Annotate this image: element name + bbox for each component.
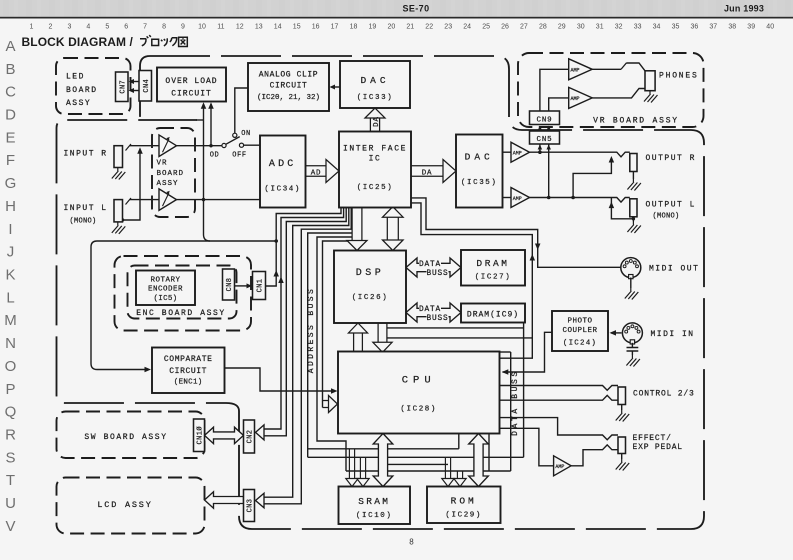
junction dot CN5-L <box>547 196 551 200</box>
wire CPU bottom to y471 line <box>488 434 490 471</box>
svg-text:8: 8 <box>409 538 414 547</box>
svg-text:ROTARY: ROTARY <box>150 277 180 285</box>
svg-text:AD: AD <box>311 170 322 178</box>
svg-text:BUSS: BUSS <box>427 270 449 278</box>
connector CN9 <box>530 111 560 125</box>
wire CPU bottom to y448 line <box>458 434 460 449</box>
wire ON contact to analog clip circuit <box>235 88 248 133</box>
thin arrow into ROM b <box>454 471 466 487</box>
wire input R to amp <box>130 145 159 147</box>
svg-text:M: M <box>4 312 17 329</box>
svg-text:26: 26 <box>501 24 509 31</box>
DRAM IC27 box <box>461 250 525 286</box>
svg-text:22: 22 <box>425 24 433 31</box>
phones jack switch contact <box>621 63 627 70</box>
input R jack switch contact <box>126 144 132 151</box>
wire CPU to effect amp <box>500 428 554 466</box>
fat arrow DA IC25 to DAC35 <box>411 160 456 183</box>
bus line y457.3 <box>308 456 524 458</box>
svg-text:C: C <box>5 84 16 101</box>
LED board assy box <box>56 58 131 114</box>
svg-text:AMP: AMP <box>513 151 522 157</box>
CPU IC28 box <box>338 352 500 434</box>
svg-text:CIRCUIT: CIRCUIT <box>169 367 207 376</box>
svg-text:ADDRESS BUSS: ADDRESS BUSS <box>307 287 316 373</box>
scanned page top edge band <box>0 0 793 17</box>
SW board assy box <box>57 412 205 459</box>
svg-text:O: O <box>5 358 17 375</box>
svg-text:N: N <box>5 335 16 352</box>
wire CN4 to CN7 upper <box>132 81 140 83</box>
wire comparate feed <box>91 241 276 370</box>
wire amp R out to OD switch <box>177 145 222 147</box>
bus line y448.8 <box>308 448 459 450</box>
svg-text:38: 38 <box>728 24 736 31</box>
svg-text:(IC34): (IC34) <box>264 186 301 194</box>
DSP IC26 box <box>334 251 406 324</box>
mono link L jack to R wire <box>123 150 141 220</box>
fat arrow CN10-CN2 <box>205 427 244 443</box>
svg-text:OD: OD <box>210 152 220 160</box>
wire overload tap R <box>210 104 212 146</box>
svg-text:EFFECT/: EFFECT/ <box>633 434 672 443</box>
thin arrow into SRAM a <box>346 449 358 487</box>
over load circuit box <box>157 68 226 102</box>
svg-text:6: 6 <box>124 24 128 31</box>
svg-text:18: 18 <box>350 24 358 31</box>
DAC IC33 box <box>340 61 410 108</box>
svg-text:LCD ASSY: LCD ASSY <box>97 500 152 510</box>
svg-text:15: 15 <box>293 24 301 31</box>
VR board assy box right <box>518 53 704 127</box>
bus line y471 <box>346 470 511 472</box>
MIDI IN ground lead with capacitor <box>631 343 633 347</box>
svg-text:28: 28 <box>539 24 547 31</box>
svg-text:DRAM: DRAM <box>476 258 509 269</box>
svg-text:ROM: ROM <box>451 496 477 507</box>
svg-text:3: 3 <box>67 24 71 31</box>
wire photo coupler to CPU <box>503 332 553 372</box>
svg-text:BUSS: BUSS <box>427 315 449 323</box>
svg-text:B: B <box>5 61 15 78</box>
svg-text:25: 25 <box>482 24 490 31</box>
svg-text:ENC BOARD ASSY: ENC BOARD ASSY <box>136 309 226 318</box>
wire CPU top right to data buss <box>500 351 511 353</box>
switch blade <box>226 137 240 145</box>
ground output R <box>627 179 641 191</box>
connector CN4 <box>139 71 152 102</box>
wire CPU control line 1 <box>500 386 618 391</box>
svg-text:CN4: CN4 <box>143 79 151 93</box>
svg-text:ANALOG CLIP: ANALOG CLIP <box>259 71 318 80</box>
junction dot sleeve link <box>632 217 635 220</box>
svg-text:E: E <box>5 129 15 146</box>
svg-text:INPUT L: INPUT L <box>64 204 108 213</box>
wire CN9 up to phones amp R <box>540 69 569 111</box>
svg-text:DSP: DSP <box>356 268 385 279</box>
svg-text:IC: IC <box>369 155 382 164</box>
comparate circuit box <box>152 348 225 394</box>
svg-text:V: V <box>5 518 15 535</box>
wire amp R to output R jack <box>530 152 630 157</box>
svg-text:31: 31 <box>596 24 604 31</box>
input R jack <box>114 146 123 168</box>
connector CN3 <box>244 490 255 522</box>
svg-text:DAC: DAC <box>360 75 389 86</box>
connector CN7 <box>116 72 129 102</box>
VR amp input R <box>159 135 177 157</box>
wire input L to amp <box>130 199 159 201</box>
ROM IC29 box <box>427 487 501 524</box>
svg-text:(IC28): (IC28) <box>400 406 437 414</box>
svg-text:LED: LED <box>66 73 85 82</box>
wire CN5 down to R wire <box>539 144 541 152</box>
svg-text:11: 11 <box>217 24 224 31</box>
svg-text:ASSY: ASSY <box>157 180 179 188</box>
svg-text:SE-70: SE-70 <box>402 4 429 14</box>
photo coupler IC24 box <box>552 311 608 351</box>
wire IC25 to CN1 <box>266 208 341 287</box>
svg-text:27: 27 <box>520 24 528 31</box>
svg-text:14: 14 <box>274 24 282 31</box>
wire CPU control line 2 <box>500 395 618 400</box>
svg-text:29: 29 <box>558 24 566 31</box>
svg-text:MIDI IN: MIDI IN <box>651 330 695 339</box>
svg-text:34: 34 <box>653 24 661 31</box>
fat arrow data buss DSP-DRAM9 <box>406 303 461 322</box>
fat arrow CPU-ROM <box>469 434 489 487</box>
wire DAC IC33 to analog clip <box>333 86 341 88</box>
fat arrow IC25-DSP bidirectional <box>383 207 404 251</box>
svg-text:CN7: CN7 <box>119 80 127 94</box>
VR board assy box left <box>152 128 195 217</box>
main board outline left edge near CN4 <box>140 56 150 120</box>
svg-text:MIDI OUT: MIDI OUT <box>649 265 699 274</box>
ENC board inner box <box>128 266 237 319</box>
data buss vertical left <box>510 352 512 471</box>
input L jack <box>114 200 123 222</box>
svg-text:COMPARATE: COMPARATE <box>164 355 213 364</box>
svg-text:9: 9 <box>181 24 185 31</box>
input L jack switch contact <box>126 198 132 205</box>
svg-text:(IC5): (IC5) <box>153 295 177 303</box>
svg-text:16: 16 <box>312 24 320 31</box>
svg-text:35: 35 <box>672 24 680 31</box>
top rule line <box>0 17 793 19</box>
fat arrow CPU up to DSP <box>348 323 367 352</box>
output L jack <box>630 199 637 217</box>
svg-text:DRAM(IC9): DRAM(IC9) <box>467 311 519 320</box>
svg-text:DATA BUSS: DATA BUSS <box>511 369 520 436</box>
junction dot L tap <box>571 196 575 200</box>
svg-text:BOARD: BOARD <box>66 86 98 95</box>
svg-text:DATA: DATA <box>419 306 441 314</box>
svg-text:37: 37 <box>709 24 717 31</box>
svg-text:SW BOARD ASSY: SW BOARD ASSY <box>84 433 167 442</box>
svg-text:CN1: CN1 <box>257 279 265 293</box>
amp phones L <box>569 87 593 108</box>
wire CN5 down to L wire <box>548 144 550 198</box>
svg-text:VR: VR <box>157 160 168 168</box>
svg-text:I: I <box>8 221 12 238</box>
wire IC25 to CN2 bus lower <box>264 208 346 436</box>
analog clip circuit box <box>248 63 329 111</box>
ground input L <box>112 222 126 234</box>
fat arrow CPU-SRAM <box>373 434 393 487</box>
svg-text:Jun 1993: Jun 1993 <box>724 4 764 14</box>
title katakana burokku-zu (hand drawn) <box>140 35 187 46</box>
svg-text:20: 20 <box>388 24 396 31</box>
svg-text:DATA: DATA <box>419 261 441 269</box>
fat arrow data buss DSP-DRAM27 <box>406 258 461 277</box>
svg-text:CIRCUIT: CIRCUIT <box>171 90 212 99</box>
svg-text:12: 12 <box>236 24 244 31</box>
svg-text:17: 17 <box>331 24 339 31</box>
wire CPU to IC25 serial <box>412 203 533 358</box>
junction dot tap R <box>209 144 212 147</box>
wire MIDI IN to photo coupler <box>611 332 622 334</box>
VR amp input L <box>159 189 177 211</box>
svg-text:8: 8 <box>162 24 166 31</box>
effect jack ground lead <box>621 454 623 460</box>
svg-text:19: 19 <box>369 24 377 31</box>
output L ground lead <box>632 217 634 222</box>
wire effect amp to exp pedal jack <box>571 445 618 466</box>
ground control jack <box>616 410 630 422</box>
svg-text:(IC35): (IC35) <box>461 179 498 187</box>
svg-text:F: F <box>6 152 15 169</box>
connector CN10 <box>194 419 205 452</box>
ground phones <box>644 91 658 103</box>
svg-text:(IC10): (IC10) <box>356 512 393 520</box>
svg-text:(IC24): (IC24) <box>563 340 597 348</box>
DRAM IC9 box <box>461 304 525 323</box>
connector CN5 <box>530 131 560 144</box>
svg-text:OFF: OFF <box>232 152 246 160</box>
fat arrow CN3 to LCD <box>205 492 244 508</box>
svg-text:A: A <box>5 38 15 55</box>
svg-text:S: S <box>5 449 15 466</box>
svg-text:1: 1 <box>30 24 34 31</box>
svg-text:INPUT R: INPUT R <box>64 150 108 159</box>
wire bus branch to mesh <box>308 233 353 457</box>
svg-text:BLOCK DIAGRAM /: BLOCK DIAGRAM / <box>22 35 134 49</box>
svg-text:4: 4 <box>86 24 90 31</box>
rotary encoder IC5 box <box>136 271 195 306</box>
svg-text:P: P <box>5 381 15 398</box>
thin arrow into SRAM b <box>357 457 369 486</box>
svg-text:AMP: AMP <box>513 196 522 202</box>
svg-text:7: 7 <box>143 24 147 31</box>
wire DAC35 to amp R <box>503 151 512 153</box>
svg-text:T: T <box>6 472 15 489</box>
ENC board outer box <box>115 256 252 331</box>
svg-text:(IC33): (IC33) <box>357 94 394 102</box>
svg-text:PHOTO: PHOTO <box>567 318 592 326</box>
ground MIDI OUT <box>625 288 639 300</box>
connector CN8 <box>223 269 235 300</box>
svg-text:J: J <box>7 244 15 261</box>
svg-text:OVER LOAD: OVER LOAD <box>165 77 217 86</box>
ADC IC34 box <box>260 136 306 208</box>
svg-text:36: 36 <box>691 24 699 31</box>
wire phones amp R to jack <box>592 68 621 70</box>
margin row letters A-V <box>4 38 17 535</box>
svg-text:Q: Q <box>5 404 17 421</box>
wire IC25 to CN3 bus lower <box>264 208 351 504</box>
output R jack <box>630 154 637 172</box>
DAC IC35 box <box>456 135 503 208</box>
fat arrow DA IC25 up to DAC33 <box>365 108 385 132</box>
ruler numbers 1-40 <box>30 24 775 31</box>
svg-text:PHONES: PHONES <box>659 72 699 81</box>
wire OFF contact to ADC <box>244 144 260 146</box>
fat arrow AD ADC to IC25 <box>306 160 340 183</box>
wire amp L to output L jack <box>530 198 630 203</box>
output L jack sleeve link <box>611 198 633 219</box>
svg-text:R: R <box>5 427 16 444</box>
svg-text:BOARD: BOARD <box>157 170 185 178</box>
address buss pair <box>317 237 352 471</box>
wire CPU effect line 1 <box>500 418 618 440</box>
svg-text:DA: DA <box>422 170 433 178</box>
svg-text:DA: DA <box>373 116 381 127</box>
svg-text:(IC25): (IC25) <box>357 184 394 192</box>
svg-text:L: L <box>6 289 14 306</box>
svg-text:5: 5 <box>105 24 109 31</box>
svg-text:ADC: ADC <box>269 159 297 170</box>
svg-text:CN1Ø: CN1Ø <box>196 426 205 444</box>
amp effect send <box>554 456 572 476</box>
svg-text:10: 10 <box>198 24 206 31</box>
svg-text:K: K <box>5 267 15 284</box>
svg-text:39: 39 <box>747 24 755 31</box>
bus line y464.4 <box>388 463 448 465</box>
fat arrow DSP down to CPU <box>373 323 392 352</box>
svg-text:(ENC1): (ENC1) <box>174 379 203 387</box>
svg-text:(IC27): (IC27) <box>475 274 512 282</box>
svg-text:DAC: DAC <box>465 152 494 163</box>
svg-text:(MONO): (MONO) <box>653 213 680 221</box>
svg-text:D: D <box>5 107 16 124</box>
svg-text:SRAM: SRAM <box>358 496 390 507</box>
fat arrow into CPU left <box>323 396 338 413</box>
MIDI OUT ground lead <box>630 278 632 289</box>
svg-text:32: 32 <box>615 24 623 31</box>
control jack ground lead <box>621 405 623 411</box>
junction dot tap L <box>202 198 205 201</box>
SRAM IC10 box <box>339 487 411 525</box>
junction dot comparate feed <box>274 239 278 243</box>
svg-text:ON: ON <box>241 130 251 138</box>
svg-text:CONTROL 2/3: CONTROL 2/3 <box>633 390 695 399</box>
svg-text:CN3: CN3 <box>247 499 255 513</box>
svg-text:U: U <box>5 495 16 512</box>
fat arrow IC25 to DSP <box>347 207 367 251</box>
svg-text:ASSY: ASSY <box>66 99 91 108</box>
phones jack <box>645 71 655 91</box>
svg-text:CN5: CN5 <box>537 136 553 144</box>
interface IC25 box <box>339 132 411 208</box>
svg-text:ENCODER: ENCODER <box>148 286 183 294</box>
svg-text:CN8: CN8 <box>226 278 234 292</box>
svg-text:CIRCUIT: CIRCUIT <box>270 82 308 91</box>
svg-text:INTER FACE: INTER FACE <box>343 145 407 154</box>
wire overload tap L <box>204 104 211 241</box>
arrows CN5 up to CN9 <box>538 126 542 131</box>
svg-text:33: 33 <box>634 24 642 31</box>
wire phones amp L to jack <box>592 89 645 98</box>
connector CN2 <box>244 420 255 453</box>
wire IC25 to MIDI OUT <box>412 198 621 267</box>
svg-text:(IC20, 21, 32): (IC20, 21, 32) <box>257 94 320 102</box>
effect exp pedal jack <box>618 437 626 454</box>
svg-text:CPU: CPU <box>402 375 436 387</box>
amp output R <box>511 142 530 162</box>
svg-text:40: 40 <box>766 24 774 31</box>
connector CN1 <box>253 272 266 300</box>
svg-text:OUTPUT R: OUTPUT R <box>646 154 696 163</box>
svg-text:23: 23 <box>444 24 452 31</box>
open arrow head into CN3 <box>256 493 265 508</box>
amp output L <box>511 188 530 208</box>
wire amp L out to ADC <box>177 199 261 201</box>
main board outline (dashed) <box>57 56 705 529</box>
svg-text:(MONO): (MONO) <box>70 218 97 226</box>
svg-text:G: G <box>5 175 17 192</box>
junction dot L jack mono link <box>121 218 124 221</box>
input section outline right edge joins overload tap <box>196 119 204 121</box>
control jack <box>618 387 626 405</box>
svg-text:(IC29): (IC29) <box>445 512 482 520</box>
wire DRAM9 bus tee to DSP-CPU arrow <box>387 327 524 329</box>
svg-text:EXP PEDAL: EXP PEDAL <box>633 443 683 452</box>
svg-text:(IC26): (IC26) <box>352 294 389 302</box>
svg-text:CN9: CN9 <box>537 116 553 124</box>
thin arrow into ROM a <box>442 457 454 486</box>
svg-text:2: 2 <box>48 24 52 31</box>
arrows into CN5 bottom <box>538 145 543 150</box>
svg-text:AMP: AMP <box>570 68 579 74</box>
wire IC25 to CN2 bus upper <box>264 208 344 430</box>
svg-text:30: 30 <box>577 24 585 31</box>
svg-text:AMP: AMP <box>570 96 579 102</box>
open arrow head into CN2 <box>256 425 265 440</box>
wire CN9 up to phones amp L <box>549 98 569 111</box>
LCD assy box <box>57 478 205 534</box>
ground input R <box>112 168 126 180</box>
ground MIDI IN <box>626 355 640 367</box>
svg-text:OUTPUT L: OUTPUT L <box>646 201 696 210</box>
svg-text:13: 13 <box>255 24 263 31</box>
wire comparate to CPU <box>225 368 335 391</box>
amp phones R <box>569 59 593 80</box>
svg-text:AMP: AMP <box>555 464 564 470</box>
data buss vertical right <box>523 323 525 458</box>
svg-text:VR BOARD ASSY: VR BOARD ASSY <box>593 117 679 126</box>
MIDI IN DIN connector <box>622 323 642 344</box>
ground output L <box>627 222 641 234</box>
wire L tap to output R switch <box>573 158 611 198</box>
svg-text:CN2: CN2 <box>247 430 255 444</box>
wire serial tee to DSP-CPU arrow <box>387 337 532 339</box>
junction dot CN5-R <box>538 150 542 154</box>
wire DAC35 to amp L <box>503 197 512 199</box>
svg-text:21: 21 <box>406 24 414 31</box>
svg-text:H: H <box>5 198 16 215</box>
svg-text:24: 24 <box>463 24 471 31</box>
MIDI OUT DIN connector <box>621 258 641 279</box>
